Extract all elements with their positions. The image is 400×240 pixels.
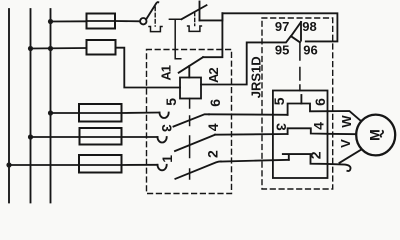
bus line L3: [50, 9, 52, 203]
relay contact terminal 98 lead: [300, 22, 302, 41]
svg-text:3: 3: [159, 124, 175, 132]
svg-text:6: 6: [312, 98, 328, 106]
contactor dashed box KM: [147, 50, 232, 194]
thermal relay dashed box JRS1D: [262, 18, 333, 189]
svg-text:95: 95: [275, 43, 289, 58]
wire contact row1 to heater FR row1: [209, 113, 288, 116]
stop button SB1 cap bracket: [149, 27, 162, 32]
svg-text:3: 3: [273, 123, 289, 131]
svg-text:5: 5: [271, 97, 287, 105]
stop button SB1 circle terminal: [140, 18, 146, 24]
fuse FU5 main row2: [80, 128, 122, 145]
coil KM box: [180, 78, 201, 99]
wire control branch 1 from L3 to fuse FU1: [51, 20, 87, 22]
relay contact NC drop: [291, 36, 300, 42]
junction dot on L2 at control wire 2: [28, 46, 33, 51]
heater element row1: [288, 104, 328, 115]
heater element row3: [282, 154, 328, 164]
heater row1 pivot tick: [300, 95, 302, 104]
wire A1 side from FU2 to coil: [116, 48, 181, 88]
coil linkage dashed to main contacts: [189, 99, 191, 180]
main wire row 2 from L2 to fuse FU5: [31, 136, 80, 138]
wire V from heater row2 to motor: [328, 133, 357, 135]
svg-text:98: 98: [302, 19, 316, 34]
svg-text:5: 5: [163, 98, 179, 106]
bus line L1: [8, 9, 10, 203]
stop button SB1 blade: [146, 2, 158, 19]
main contact KM row2 blade: [175, 135, 215, 151]
wire fuse to contact row3: [122, 164, 158, 166]
junction dot on L3 at control wire 1: [48, 19, 53, 24]
wire W from heater row1 to motor: [328, 111, 362, 122]
fuse FU2 (control): [87, 40, 116, 55]
fuse FU1 (control): [87, 14, 116, 29]
junction dot on L1 at main wire W row: [6, 162, 11, 167]
wire node top route to relay NC return: [222, 13, 337, 41]
start button SB2 actuator dashed line: [194, 13, 196, 26]
fuse FU4 main row1: [79, 104, 122, 122]
wire control branch 2 from L2 to fuse FU2: [31, 47, 87, 50]
svg-text:A1: A1: [159, 65, 174, 80]
wire A2 side from coil up to relay contact: [201, 37, 291, 85]
wire fuse to contact row1: [122, 112, 160, 115]
svg-text:2: 2: [205, 150, 221, 158]
wire start button output to node: [200, 13, 223, 20]
wire contact row3 to heater FR row3: [221, 160, 289, 162]
svg-text:V: V: [338, 139, 353, 148]
start button SB2 cap bracket: [188, 26, 202, 31]
relay linkage to heater block: [299, 42, 301, 90]
aux contact KM blade: [179, 57, 203, 72]
svg-text:97: 97: [275, 19, 289, 34]
main wire row 1 from L3 to fuse FU4: [51, 112, 80, 114]
main contact KM row1 fixed arc: [160, 113, 169, 118]
start button SB2 left terminal T: [169, 19, 181, 59]
wire node down to aux contact: [203, 13, 222, 57]
bus line L2: [30, 9, 32, 203]
junction dot on L2 at main wire V row: [28, 134, 33, 139]
start button SB2 blade: [182, 5, 207, 19]
main wire row 3 from L1 to fuse FU6: [9, 164, 79, 166]
main contact KM row1 blade: [174, 114, 210, 126]
main contact KM row3 blade: [175, 161, 221, 178]
heater element row2: [288, 128, 328, 134]
svg-text:96: 96: [303, 43, 317, 58]
svg-text:4: 4: [205, 123, 221, 131]
wire U from heater row3 to motor: [328, 164, 351, 171]
wire fuse to contact row2: [122, 136, 158, 138]
svg-text:W: W: [339, 115, 354, 128]
svg-text:4: 4: [310, 122, 326, 130]
relay contact blade 97-98: [291, 22, 301, 36]
svg-text:1: 1: [159, 155, 175, 163]
aux contact pivot link to coil: [188, 66, 190, 78]
main contact KM row3 fixed arc: [158, 165, 167, 171]
junction dot on L3 at main wire U row: [48, 110, 53, 115]
wire contact row2 to heater FR row2: [215, 133, 288, 136]
main contact KM row2 fixed arc: [158, 137, 167, 143]
label tilde motor: [381, 130, 384, 137]
svg-text:JRS1D: JRS1D: [248, 56, 263, 98]
start button SB2 right terminal post: [199, 2, 201, 21]
wire U diagonal to motor: [340, 149, 362, 163]
motor M circle: [356, 115, 395, 156]
svg-text:2: 2: [308, 151, 324, 159]
fuse FU6 main row3: [79, 155, 122, 173]
svg-text:6: 6: [207, 99, 223, 107]
junction dot on L3 at control wire 2: [48, 46, 53, 51]
wire from FU1 to stop button: [115, 20, 140, 22]
svg-text:A2: A2: [206, 68, 221, 83]
heater block box FR: [273, 91, 328, 179]
stop button SB1 actuator dashed line: [154, 7, 156, 26]
